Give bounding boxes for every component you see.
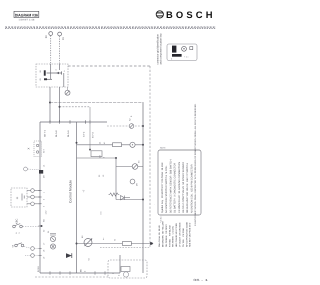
svg-text:G 7-4: G 7-4 [92, 132, 95, 138]
svg-text:CE 7-1: CE 7-1 [43, 129, 46, 137]
resistor zigzag R9 [109, 193, 120, 196]
vertical branch x116 [115, 158, 117, 200]
wire relay to module pin (left) [49, 87, 51, 122]
svg-text:© 1997 ROBERT BOSCH GMBH. REPR: © 1997 ROBERT BOSCH GMBH. REPRINTED WITH… [194, 103, 197, 226]
terminal 30 circle [45, 32, 53, 39]
svg-text:GN GREEN GR GREY: GN GREEN GR GREY [165, 223, 168, 247]
black connector drawing [172, 46, 176, 53]
left edge pin ticks [38, 191, 41, 256]
connector circle on bottom wire [123, 272, 128, 277]
svg-text:KBC: KBC [16, 219, 19, 224]
svg-text:X: X [27, 148, 31, 150]
svg-text:G1 BATTERY X DIAGNOSTIC CONNE: G1 BATTERY X DIAGNOSTIC CONNECTOR [174, 163, 177, 213]
terminal 15 circle [58, 32, 66, 40]
bottom internal wire y243.5 [77, 243, 152, 245]
header rule [5, 27, 216, 28]
dashed bus right x150 [149, 66, 151, 248]
svg-text:A4 IGNITION / STARTER SWITCH: A4 IGNITION / STARTER SWITCH N COIL [165, 165, 168, 213]
svg-text:RT RED SW BLACK: RT RED SW BLACK [168, 224, 171, 247]
svg-text:K6 COLD START VALVE 52 SPEED: K6 COLD START VALVE 52 SPEED SENSOR [182, 162, 185, 213]
svg-text:52-19: 52-19 [37, 266, 40, 272]
wire relay to module pin (right) [59, 87, 61, 122]
module internal rail [76, 122, 78, 273]
module bottom pin ticks [50, 271, 105, 274]
component box U2 [91, 151, 102, 157]
junction on left wire [49, 102, 51, 104]
bottom dashed wire y277 [35, 276, 108, 278]
junction arrow at x151.5 [150, 242, 152, 244]
battery plates [22, 194, 24, 201]
solid bus x143 [142, 103, 144, 274]
relay K1 dashed box [36, 64, 68, 87]
internal wire y199.5 [116, 199, 143, 201]
svg-text:Control Module: Control Module [69, 180, 73, 203]
svg-text:M8 AUXILIARY AIR VALVE KBC FP: M8 AUXILIARY AIR VALVE KBC FP SWITCH [186, 163, 189, 213]
svg-text:Wire Colors BL BLUE: Wire Colors BL BLUE [158, 225, 161, 247]
black pin block on module edge [39, 170, 43, 174]
svg-text:K1 MAIN RELAY 31 GROUND CONNE: K1 MAIN RELAY 31 GROUND CONNECTION [178, 162, 181, 213]
internal wire y144.8 [77, 144, 144, 146]
module top pin labels [43, 129, 94, 138]
internal wire y158 [77, 157, 117, 159]
resistor R12 [122, 242, 131, 246]
junction at bus y199.5 [142, 199, 144, 201]
variant dashed box (bottom) [108, 260, 147, 278]
wire color key block [158, 220, 192, 247]
wire from terminal 15 down [59, 36, 61, 64]
svg-text:DL 5-9: DL 5-9 [67, 130, 70, 137]
splice S1 [67, 87, 69, 90]
svg-text:VI VIOLET OR ORANGE: VI VIOLET OR ORANGE [179, 222, 182, 247]
svg-text:TN TAN PK PINK: TN TAN PK PINK [182, 227, 185, 247]
dashed wire y126 [107, 125, 143, 127]
svg-text:N IGNITION COIL X20 6-PIN CON: N IGNITION COIL X20 6-PIN CONNECTOR [190, 164, 193, 213]
diode arrow [66, 253, 72, 258]
labels on y144.8 row [99, 141, 107, 144]
svg-text:Symbol Key 30 BATTERY VOLTAG: Symbol Key 30 BATTERY VOLTAGE 15 IGN [161, 162, 164, 213]
svg-text:DIAGRAM #36: DIAGRAM #36 [15, 13, 38, 17]
lamp circle H2 [132, 164, 138, 170]
junction on module edge at KBC wire [41, 225, 43, 227]
svg-text:+: + [16, 196, 19, 201]
transistor Q2 [50, 244, 55, 249]
switch S88 [12, 243, 41, 251]
svg-text:NF NO FUNCTION CODE: NF NO FUNCTION CODE [185, 221, 188, 247]
long dashed wire top y66 [68, 65, 150, 67]
component inside variant box [121, 267, 130, 272]
connector grid identification label [156, 33, 162, 65]
battery wires and connector circles [27, 189, 40, 206]
sensor circle G2 [130, 142, 135, 147]
battery G1 dashed box [11, 188, 27, 207]
motor circle M8 [130, 179, 135, 184]
zener B5 circle [84, 238, 92, 246]
svg-text:HB LT BLUE HR LT RED: HB LT BLUE HR LT RED [175, 223, 178, 247]
switch KBC [13, 219, 40, 234]
legend rotated text [161, 159, 193, 213]
legend footnote [154, 204, 163, 223]
dashed wire y107 to x90 branch [60, 106, 91, 108]
junction at bus y126 [142, 125, 144, 127]
svg-text:and component location key: and component location key [160, 33, 163, 65]
fuse element inside relay [44, 70, 46, 75]
resistor R3 [113, 143, 122, 147]
junction x116 y158 [115, 157, 117, 159]
svg-text:BR BROWN GE YELLOW: BR BROWN GE YELLOW [162, 220, 165, 247]
bottom pin labels [37, 266, 115, 274]
grid circle [182, 46, 187, 51]
title block box "DIAGRAM #36" [14, 11, 39, 17]
svg-text:WS WHITE LI LILAC: WS WHITE LI LILAC [172, 225, 175, 247]
diode D4 [121, 196, 131, 200]
junction at bus y144.8 [142, 144, 144, 146]
relay pin labels [39, 69, 66, 81]
id box bottom marks [171, 56, 189, 61]
connector X1 (left) [27, 141, 42, 157]
module top pin ticks [50, 120, 90, 124]
dashed wire y247.6 [100, 247, 150, 249]
Bosch logo symbol [156, 11, 163, 18]
relay internal wires [51, 64, 64, 87]
splice S27 on y126 [129, 124, 134, 129]
transistor Q1 [50, 234, 56, 242]
svg-text:DL 5-8: DL 5-8 [55, 130, 58, 137]
left edge pin labels inside module [43, 148, 103, 232]
svg-text:S 7-2: S 7-2 [83, 131, 86, 137]
relay contact arm [44, 71, 61, 79]
pin stub x90 with box [89, 107, 91, 151]
svg-text:SEE KEY ON PAGE 36-0: SEE KEY ON PAGE 36-0 [189, 222, 192, 247]
svg-text:B5 REFERENCE MARK SENSOR S88: B5 REFERENCE MARK SENSOR S88 SWITCH [169, 159, 172, 213]
svg-text:1/29/97 1:48: 1/29/97 1:48 [18, 19, 35, 22]
connector grid id box [167, 44, 197, 61]
symbol key legend box [158, 150, 201, 215]
connector circle lower [25, 254, 40, 258]
labels on y158 row [98, 154, 106, 177]
control module box [40, 122, 120, 273]
wire from terminal 30 down [50, 36, 52, 64]
wire y102.5 to right bus [50, 102, 144, 104]
svg-text:36 - 1: 36 - 1 [193, 278, 209, 282]
junction on right wire [59, 106, 61, 108]
wire y166.5 to bus [116, 166, 143, 168]
svg-text:NOTE: NOTE [160, 147, 166, 150]
relay coil bar [44, 78, 47, 80]
black connector bar [172, 54, 182, 57]
grid square symbol [190, 47, 193, 50]
extra left edge labels [42, 164, 45, 245]
connector circle (2) [24, 167, 28, 171]
